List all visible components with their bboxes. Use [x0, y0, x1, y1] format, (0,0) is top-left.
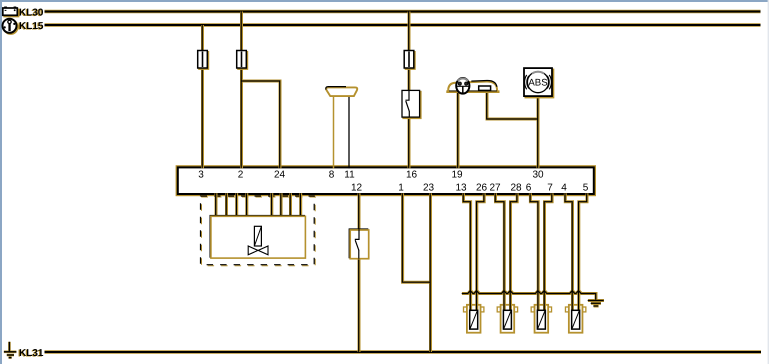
- svg-text:7: 7: [547, 183, 553, 194]
- svg-text:ABS: ABS: [528, 78, 547, 89]
- svg-text:8: 8: [329, 170, 335, 181]
- svg-text:24: 24: [274, 170, 286, 181]
- svg-text:26: 26: [476, 183, 488, 194]
- svg-text:3: 3: [198, 170, 204, 181]
- svg-text:30: 30: [532, 170, 544, 181]
- svg-text:4: 4: [561, 183, 567, 194]
- svg-text:13: 13: [455, 183, 467, 194]
- svg-text:KL30: KL30: [19, 8, 44, 19]
- svg-text:1: 1: [398, 183, 404, 194]
- svg-text:11: 11: [344, 170, 355, 181]
- svg-text:23: 23: [423, 183, 435, 194]
- svg-text:KL15: KL15: [19, 21, 44, 32]
- svg-text:27: 27: [489, 183, 501, 194]
- svg-text:6: 6: [526, 183, 532, 194]
- svg-text:16: 16: [406, 170, 418, 181]
- svg-text:28: 28: [510, 183, 522, 194]
- svg-text:12: 12: [351, 183, 363, 194]
- svg-text:KL31: KL31: [19, 348, 44, 359]
- svg-text:19: 19: [451, 170, 463, 181]
- svg-text:5: 5: [583, 183, 589, 194]
- svg-text:2: 2: [238, 170, 244, 181]
